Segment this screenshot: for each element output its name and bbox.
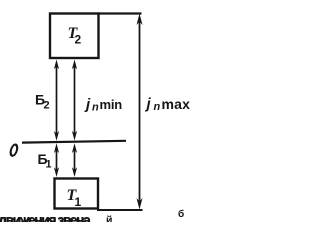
svg-text:min: min [100, 97, 123, 112]
svg-text:1: 1 [75, 195, 82, 209]
svg-text:б: б [178, 208, 184, 220]
svg-text:max: max [162, 96, 191, 112]
svg-text:й: й [106, 214, 112, 222]
svg-text:n: n [154, 101, 161, 113]
svg-text:j: j [84, 96, 91, 113]
svg-text:j: j [145, 96, 152, 113]
svg-text:n: n [92, 102, 99, 114]
svg-text:2: 2 [75, 33, 82, 47]
svg-text:движения звена: движения звена [0, 212, 91, 222]
svg-text:1: 1 [46, 159, 52, 171]
svg-text:2: 2 [44, 100, 50, 112]
